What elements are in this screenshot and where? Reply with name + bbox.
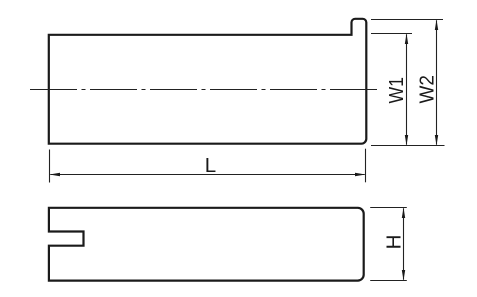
H dimension line — [403, 208, 405, 279]
svg-text:W2: W2 — [416, 75, 439, 104]
H top extension line — [370, 207, 407, 209]
W2 top extension line — [371, 19, 443, 21]
svg-text:L: L — [205, 154, 216, 177]
W1 top arrowhead — [405, 34, 408, 45]
bottom view part outline with notch — [49, 208, 364, 281]
L dimension left arrowhead — [50, 173, 61, 176]
W2 bottom arrowhead — [435, 135, 438, 146]
centerline (dash-dot) — [30, 89, 377, 91]
L dimension right arrowhead — [355, 173, 366, 176]
svg-text:H: H — [382, 235, 405, 250]
svg-text:W1: W1 — [385, 77, 408, 104]
L dimension right extension line — [365, 149, 367, 183]
L dimension left extension line — [49, 150, 51, 183]
W2 dimension line — [436, 20, 438, 144]
W1 dimension line — [406, 34, 408, 144]
W2 top arrowhead — [435, 20, 438, 31]
H bottom arrowhead — [402, 270, 405, 281]
H bottom extension line — [370, 280, 407, 282]
W1 top extension line — [371, 33, 412, 35]
bottom extension line for W1 and W2 — [371, 145, 445, 147]
top view part outline with tab — [49, 19, 367, 144]
H top arrowhead — [402, 208, 405, 219]
W1 bottom arrowhead — [405, 135, 408, 146]
L dimension line — [50, 174, 364, 176]
